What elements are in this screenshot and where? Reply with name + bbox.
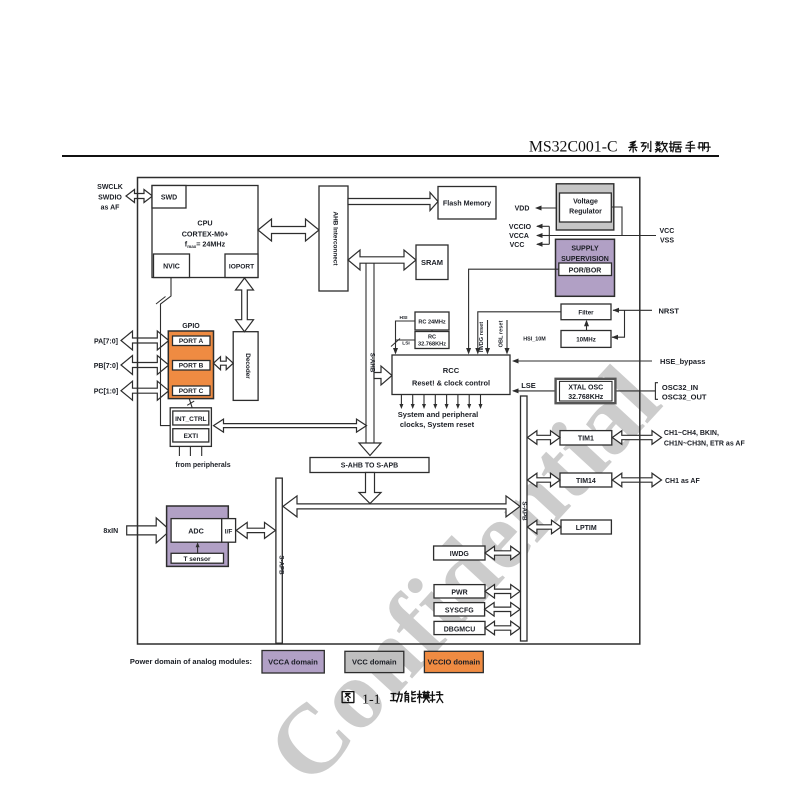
- svg-text:PB[7:0]: PB[7:0]: [94, 363, 119, 370]
- wire 8xIN input arrow: [127, 518, 171, 543]
- wire S-AHB to RCC arrow: [374, 366, 392, 385]
- svg-text:SRAM: SRAM: [421, 258, 443, 267]
- svg-text:SWCLK: SWCLK: [97, 184, 123, 191]
- svg-text:GPIO: GPIO: [182, 323, 200, 330]
- svg-text:Reset! & clock control: Reset! & clock control: [412, 379, 490, 388]
- wire SWCLK/SWDIO double arrow: [126, 190, 153, 203]
- svg-text:32.768KHz: 32.768KHz: [568, 394, 604, 401]
- wire NRST line: [613, 309, 652, 311]
- block POR/BOR: [559, 263, 612, 276]
- header rule: [62, 155, 719, 157]
- svg-text:RCC: RCC: [443, 366, 460, 375]
- svg-text:LSE: LSE: [521, 381, 536, 390]
- block XTAL OSC: [556, 379, 616, 403]
- wire PB[7:0] double arrow: [121, 356, 169, 375]
- svg-text:CPU: CPU: [197, 219, 212, 228]
- svg-text:PC[1:0]: PC[1:0]: [94, 389, 119, 396]
- svg-text:NRST: NRST: [659, 306, 680, 315]
- svg-text:HSI: HSI: [400, 315, 409, 321]
- wire VCC line: [537, 243, 549, 245]
- svg-text:IWDG reset: IWDG reset: [479, 322, 485, 352]
- svg-text:S-AHB TO S-APB: S-AHB TO S-APB: [341, 463, 398, 470]
- svg-text:SWDIO: SWDIO: [98, 195, 122, 202]
- wire NRST branch to 10MHz: [612, 310, 625, 337]
- wire TIM14 AF double arrow: [612, 473, 661, 487]
- svg-text:Regulator: Regulator: [569, 209, 602, 216]
- svg-text:TIM1: TIM1: [578, 436, 594, 443]
- svg-text:DBGMCU: DBGMCU: [444, 626, 476, 633]
- svg-text:HSI_10M: HSI_10M: [523, 337, 546, 343]
- svg-text:PORT B: PORT B: [179, 363, 204, 370]
- block ADC: [171, 519, 222, 543]
- svg-text:VCCA domain: VCCA domain: [268, 658, 318, 667]
- svg-text:PORT A: PORT A: [179, 338, 204, 345]
- block EXTI: [173, 429, 209, 442]
- wire TIM1 AF double arrow: [612, 431, 661, 445]
- svg-text:10MHz: 10MHz: [576, 337, 596, 344]
- block SRAM: [416, 245, 448, 280]
- block Decoder: [233, 332, 258, 401]
- block INT_CTRL: [173, 411, 209, 425]
- legend VCC domain: [345, 651, 404, 672]
- svg-text:POR/BOR: POR/BOR: [569, 267, 602, 274]
- svg-text:1-1: 1-1: [362, 693, 381, 708]
- wire PC[1:0] double arrow: [121, 381, 169, 400]
- svg-text:CH1~CH4, BKIN,: CH1~CH4, BKIN,: [664, 430, 719, 437]
- svg-text:HSE_bypass: HSE_bypass: [660, 357, 705, 366]
- svg-text:VDD: VDD: [515, 206, 530, 213]
- svg-text:S-APB: S-APB: [521, 501, 528, 521]
- wire OBL reset stub: [506, 320, 508, 351]
- block T sensor: [171, 553, 223, 563]
- svg-text:VCCA: VCCA: [509, 233, 529, 240]
- wire PA[7:0] double arrow: [121, 331, 169, 350]
- wire INT_CTRL to S-AHB bus: [214, 419, 367, 432]
- svg-text:PWR: PWR: [451, 590, 467, 597]
- svg-text:CH1 as AF: CH1 as AF: [665, 478, 700, 485]
- header title: [529, 139, 618, 156]
- svg-text:Decoder: Decoder: [244, 353, 251, 379]
- svg-text:clocks, System reset: clocks, System reset: [400, 420, 475, 429]
- block I/F: [222, 519, 236, 543]
- svg-text:INT_CTRL: INT_CTRL: [175, 416, 206, 423]
- svg-text:LPTIM: LPTIM: [576, 525, 597, 532]
- wire PWR bus arrow: [485, 585, 520, 599]
- svg-text:EXTI: EXTI: [184, 433, 199, 440]
- block IWDG: [434, 546, 485, 560]
- wire VCCIO line: [537, 225, 549, 227]
- block GPIO: [168, 331, 213, 399]
- wire TIM14 bus arrow: [527, 473, 560, 487]
- svg-text:CH1N~CH3N, ETR as AF: CH1N~CH3N, ETR as AF: [664, 441, 746, 448]
- wire GPIO-Decoder double arrow: [214, 357, 234, 370]
- wire PORTC to INT_CTRL: [189, 399, 192, 408]
- svg-text:IOPORT: IOPORT: [229, 264, 254, 271]
- legend VCCIO domain: [424, 651, 483, 672]
- svg-text:PA[7:0]: PA[7:0]: [94, 339, 118, 346]
- svg-text:SYSCFG: SYSCFG: [445, 608, 474, 615]
- wire OSC32 bracket: [616, 390, 656, 392]
- wire from peripherals stubs: [178, 446, 180, 456]
- block PORT B: [173, 361, 211, 371]
- block SUPPLY SUPERVISION: [556, 239, 615, 296]
- svg-text:OSC32_OUT: OSC32_OUT: [662, 393, 707, 402]
- wire IOPORT-Decoder double arrow: [236, 278, 254, 332]
- wire VCC vertical connector: [548, 226, 550, 244]
- svg-text:from peripherals: from peripherals: [175, 462, 230, 469]
- block RC 32.768KHz: [415, 332, 449, 349]
- svg-text:ADC: ADC: [188, 527, 204, 536]
- svg-text:Filter: Filter: [578, 310, 594, 317]
- wire VDD line: [536, 207, 556, 209]
- block RC 24MHz: [415, 312, 449, 330]
- wire RC link: [431, 330, 433, 332]
- bus S-APB left bar: [276, 478, 282, 643]
- svg-text:RC: RC: [428, 335, 436, 341]
- wire VCC/VSS line: [549, 235, 656, 237]
- svg-text:as AF: as AF: [101, 205, 121, 212]
- svg-text:CORTEX-M0+: CORTEX-M0+: [182, 230, 229, 239]
- svg-text:VCC: VCC: [510, 242, 525, 249]
- bus S-APB right bar: [521, 396, 528, 641]
- svg-text:OBL reset: OBL reset: [499, 321, 505, 348]
- block ADC domain: [167, 506, 229, 566]
- block SYSCFG: [434, 603, 485, 616]
- wire HSE_bypass line: [513, 360, 652, 362]
- block SWD: [152, 186, 186, 209]
- caption 图 1-1 功能模块: [342, 691, 443, 707]
- svg-text:S-AHB: S-AHB: [368, 353, 375, 373]
- wire SYSCFG bus arrow: [485, 603, 521, 617]
- block PORT C: [173, 386, 211, 396]
- svg-text:SWD: SWD: [161, 195, 177, 202]
- wire regulator output: [611, 207, 622, 236]
- svg-text:VCC: VCC: [660, 228, 675, 235]
- block PORT A: [173, 336, 211, 346]
- svg-text:System and peripheral: System and peripheral: [398, 410, 478, 419]
- bus S-AHB vertical: [365, 264, 367, 444]
- wire AHB-SRAM double arrow: [348, 250, 416, 270]
- svg-text:SUPPLY: SUPPLY: [571, 246, 599, 253]
- svg-text:PORT C: PORT C: [179, 388, 204, 395]
- block Flash Memory: [438, 187, 496, 220]
- wire ADC T sensor link: [197, 546, 199, 553]
- wire DBGMCU bus arrow: [485, 621, 520, 635]
- wire I/F to S-APB: [236, 522, 275, 538]
- wire LSE line: [513, 390, 556, 392]
- wire VCCA line: [537, 235, 549, 237]
- block Filter: [561, 304, 611, 320]
- svg-text:NVIC: NVIC: [163, 264, 180, 271]
- wire POR/BOR to RCC: [469, 269, 559, 350]
- block PWR: [434, 585, 485, 598]
- block NVIC: [154, 254, 190, 278]
- block TIM14: [560, 473, 612, 487]
- svg-text:TIM14: TIM14: [576, 478, 596, 485]
- svg-text:AHB Interconnect: AHB Interconnect: [332, 212, 339, 267]
- bus S-APB horizontal arrow: [283, 496, 520, 517]
- wire HSI LSI to RCC: [396, 321, 416, 351]
- block S-AHB TO S-APB: [310, 458, 429, 473]
- block IOPORT: [225, 254, 258, 278]
- svg-text:Power domain of analog modules: Power domain of analog modules:: [130, 657, 252, 666]
- wire IWDG reset stub: [487, 320, 489, 351]
- svg-text:SUPERVISION: SUPERVISION: [561, 256, 609, 263]
- svg-text:XTAL OSC: XTAL OSC: [568, 385, 603, 392]
- block 10MHz: [561, 331, 611, 348]
- svg-text:T sensor: T sensor: [183, 556, 211, 563]
- wires RCC output stubs: [400, 395, 402, 406]
- svg-text:8xIN: 8xIN: [103, 528, 118, 535]
- svg-text:Voltage: Voltage: [573, 199, 598, 206]
- svg-text:MS32C001-C: MS32C001-C: [529, 139, 618, 156]
- diagram outer border: [138, 178, 640, 645]
- svg-text:VSS: VSS: [660, 238, 674, 245]
- wire CPU-AHB double arrow: [258, 219, 319, 241]
- block CPU CORTEX-M0+: [152, 186, 258, 278]
- svg-text:32.768KHz: 32.768KHz: [418, 342, 446, 348]
- block AHB Interconnect: [319, 186, 348, 291]
- wire 10MHz to Filter: [586, 324, 588, 331]
- block INT_CTRL outer: [170, 408, 211, 447]
- block TIM1: [560, 431, 612, 445]
- legend VCCA domain: [262, 651, 324, 674]
- wire box to APB arrow: [359, 473, 381, 504]
- svg-text:I/F: I/F: [225, 529, 233, 536]
- svg-text:VCCIO domain: VCCIO domain: [428, 658, 481, 667]
- svg-text:LSI: LSI: [402, 341, 410, 347]
- block DBGMCU: [434, 621, 485, 634]
- wire LPTIM bus arrow: [527, 520, 561, 534]
- svg-text:OSC32_IN: OSC32_IN: [662, 383, 698, 392]
- svg-text:S-APB: S-APB: [277, 555, 284, 575]
- svg-text:Flash Memory: Flash Memory: [443, 199, 491, 208]
- wire IWDG bus arrow: [485, 546, 520, 560]
- block Voltage Regulator: [556, 184, 614, 230]
- svg-text:RC 24MHz: RC 24MHz: [418, 320, 446, 326]
- svg-text:VCC domain: VCC domain: [352, 658, 397, 667]
- wire TIM1 bus arrow: [527, 431, 560, 445]
- block RCC: [392, 355, 510, 395]
- wire AHB-Flash arrow: [348, 193, 438, 211]
- svg-text:VCCIO: VCCIO: [509, 224, 532, 231]
- header title chinese 系列数据手册: [629, 141, 710, 152]
- wire NVIC to INT_CTRL: [161, 278, 172, 426]
- svg-text:IWDG: IWDG: [450, 551, 470, 558]
- block LPTIM: [561, 520, 611, 534]
- wire Filter to RCC: [478, 312, 561, 351]
